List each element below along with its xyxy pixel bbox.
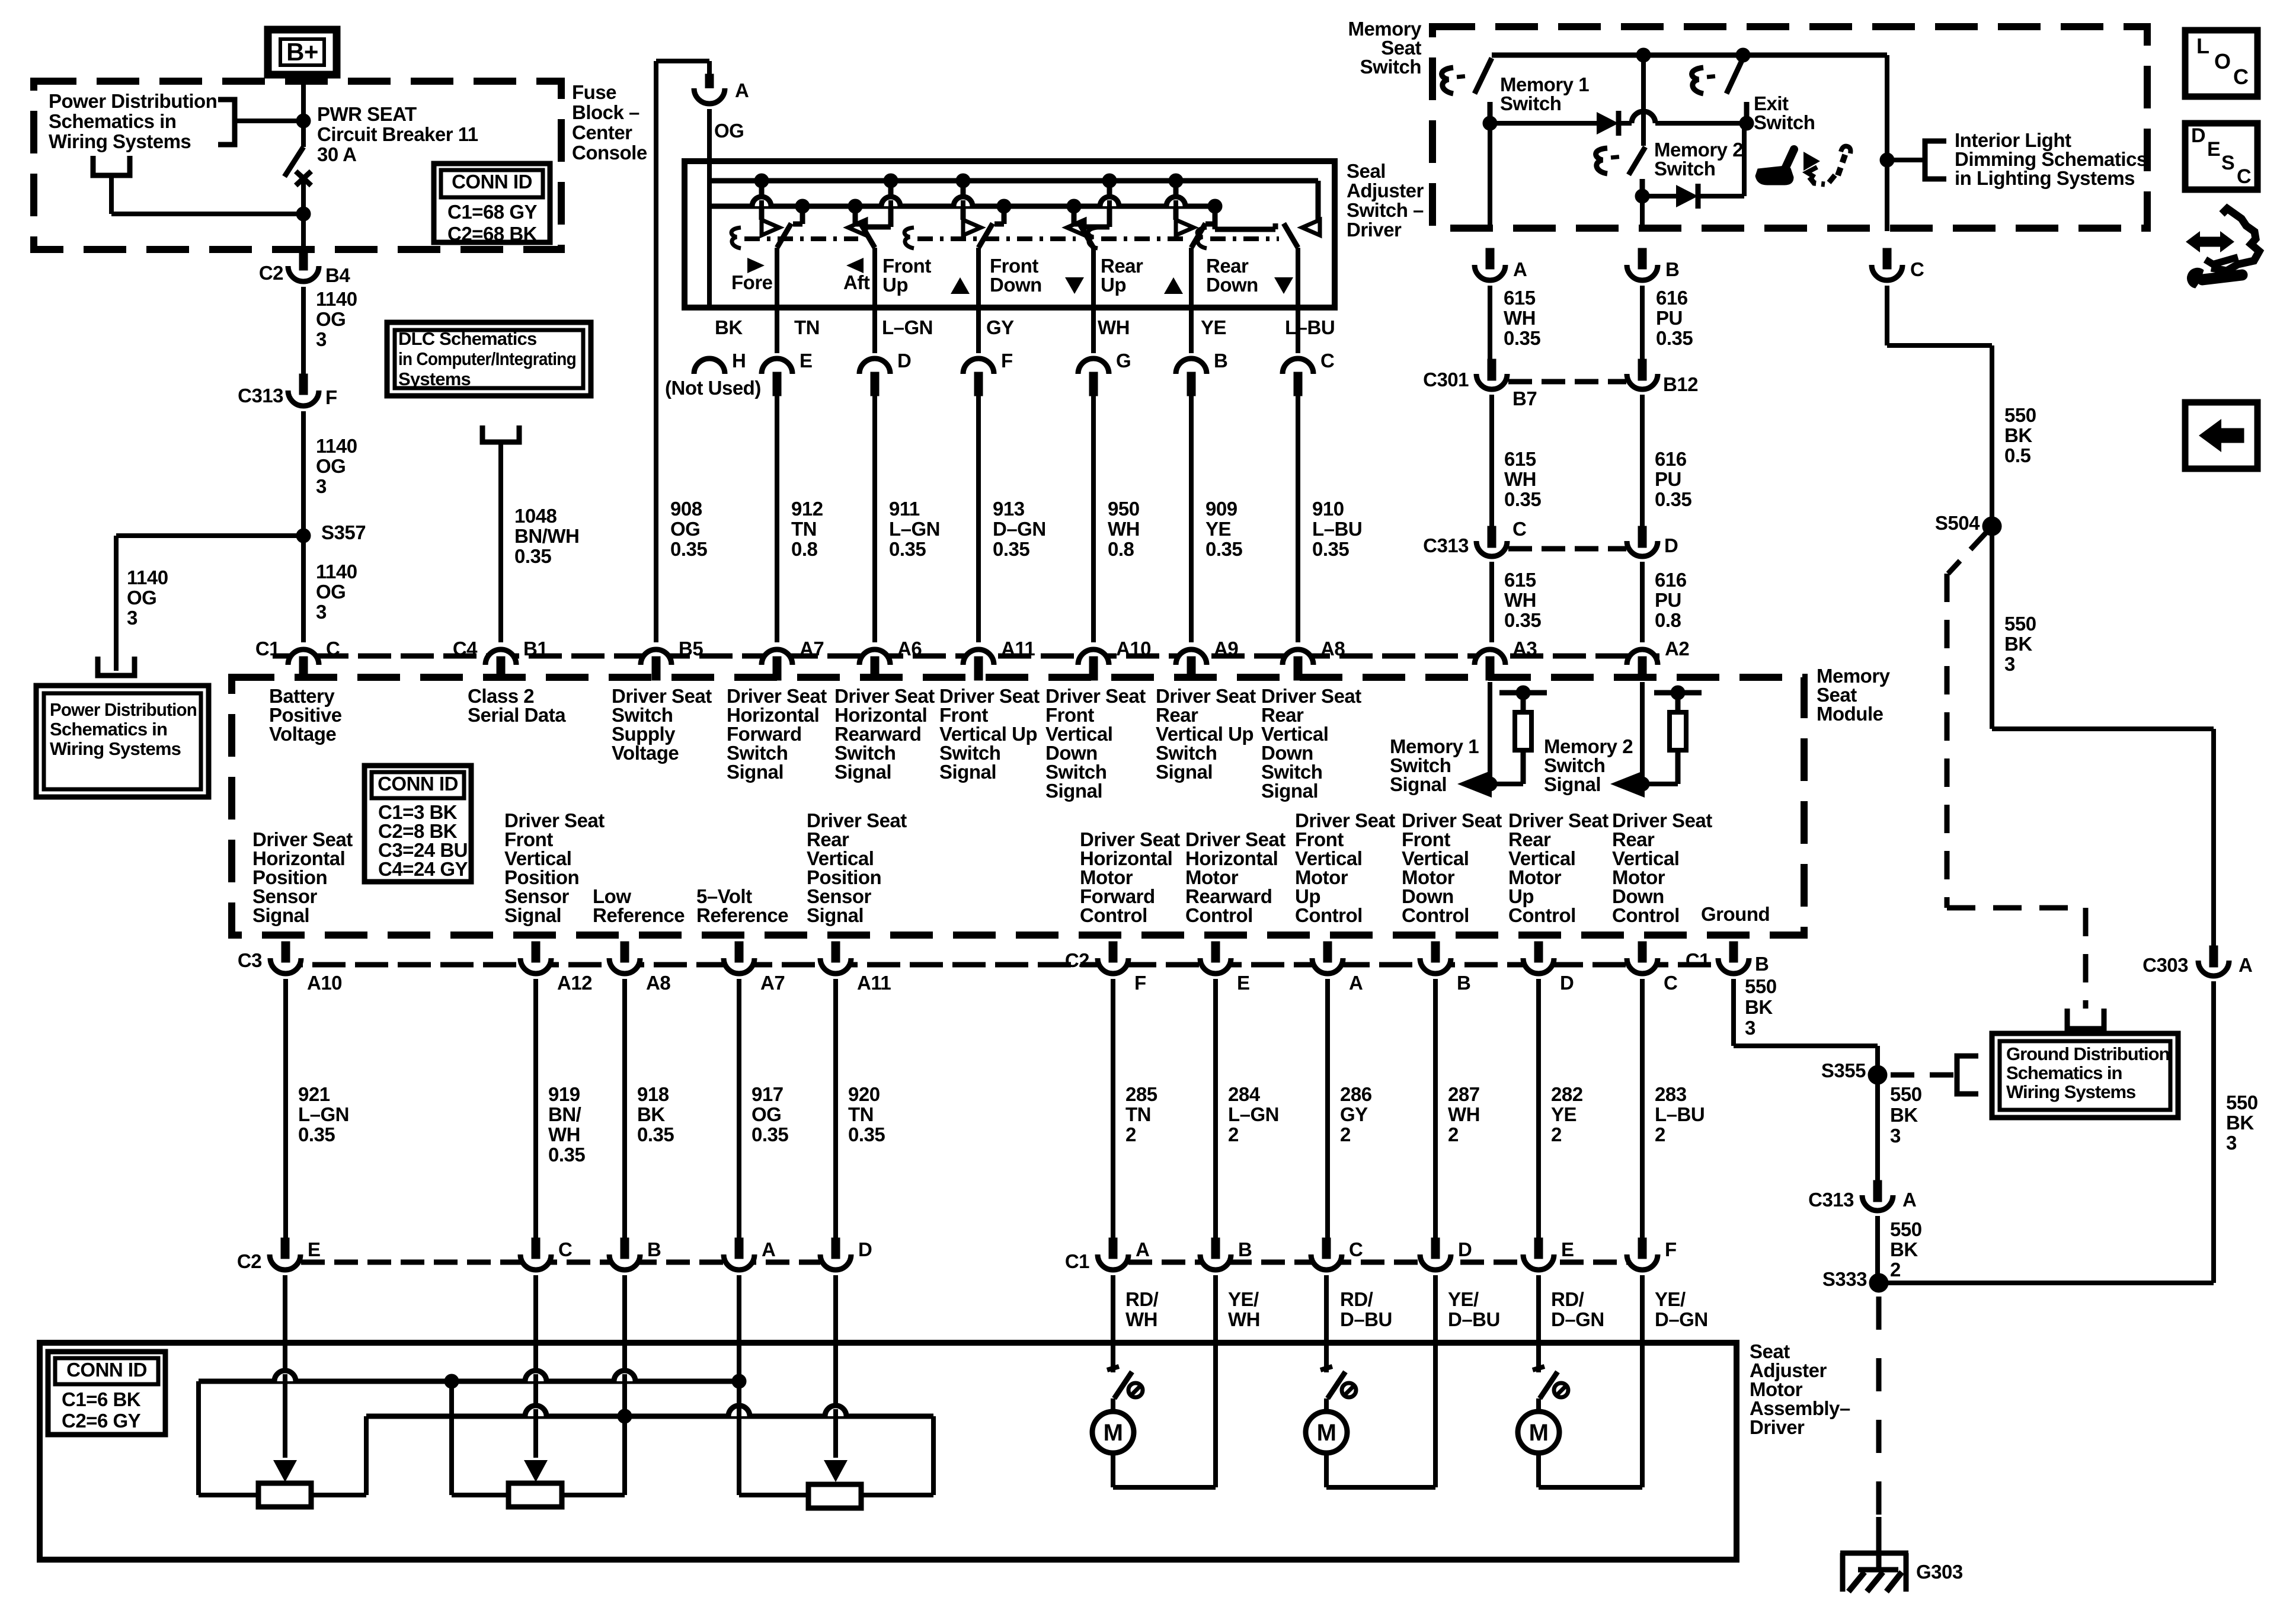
- connector D module bottom: [1523, 958, 1554, 974]
- wire motor horizontal bottom: [1111, 1453, 1115, 1487]
- svg-text:BK: BK: [715, 316, 743, 338]
- dashed wire to ground G303: [1876, 1297, 1882, 1517]
- wire sensor horizontal to wiper: [283, 1275, 287, 1458]
- svg-text:C: C: [1512, 518, 1526, 540]
- wire OG supply into switch box: [707, 109, 712, 308]
- horizontal position sensor potentiometer: [273, 1460, 297, 1482]
- circuit breaker X mark: [296, 171, 311, 185]
- direction glyph rear down: [1274, 277, 1293, 294]
- node top bus / exit switch: [1736, 48, 1750, 62]
- svg-text:C1=3 BKC2=8 BKC3=24 BUC4=24 GY: C1=3 BKC2=8 BKC3=24 BUC4=24 GY: [378, 801, 468, 880]
- svg-text:A10: A10: [307, 972, 342, 994]
- LOC icon box: [2185, 30, 2257, 97]
- wire memory1 to connector A: [1488, 123, 1492, 231]
- wire bracket to breaker node: [235, 119, 296, 123]
- off-page cup dashed ground branch: [2067, 1009, 2104, 1029]
- svg-text:CONN ID: CONN ID: [66, 1359, 147, 1381]
- wire branch down: [114, 536, 119, 671]
- connector A motor assembly: [724, 1254, 754, 1270]
- wire 287 WH: [1433, 979, 1438, 1240]
- svg-text:A9: A9: [1214, 638, 1238, 660]
- splice S357: [296, 529, 311, 543]
- svg-text:BatteryPositiveVoltage: BatteryPositiveVoltage: [269, 685, 342, 745]
- seat icon dashed target cushion: [1809, 177, 1825, 184]
- svg-text:A6: A6: [897, 638, 922, 660]
- splice S504: [1982, 517, 2001, 536]
- connector C motor assembly: [520, 1254, 551, 1270]
- wire 616 PU mid: [1640, 395, 1645, 526]
- connector A memory seat switch: [1475, 265, 1505, 280]
- front down switch: [1107, 181, 1112, 227]
- svg-text:E: E: [308, 1238, 321, 1260]
- riser pot1 to 5v bus: [196, 1381, 201, 1495]
- connector A8 module top: [1283, 649, 1313, 665]
- wire 950 WH: [1091, 391, 1096, 642]
- wire S357 branch left: [116, 533, 303, 538]
- connector C module top: [288, 649, 319, 665]
- connector C301/B12: [1638, 359, 1646, 379]
- connector A motor assembly: [1098, 1254, 1128, 1270]
- bus A right drop: [1316, 181, 1321, 220]
- svg-text:S357: S357: [321, 521, 366, 543]
- wire down to C303: [2211, 729, 2216, 946]
- wire motor front vertical bottom: [1324, 1453, 1329, 1487]
- svg-text:F: F: [325, 386, 337, 408]
- schematic route outline icon: [2211, 209, 2259, 271]
- actuator curl fore/aft: [731, 228, 741, 248]
- bracket to power distribution schematics: [218, 100, 235, 145]
- connector A11 module top: [963, 649, 994, 665]
- hop over front vertical sensor wire 2: [525, 1406, 546, 1416]
- wire motor rear vertical bottom: [1536, 1453, 1541, 1487]
- svg-text:M: M: [1529, 1420, 1549, 1446]
- connector A8 module bottom: [609, 958, 640, 974]
- module top connector dashed line: [273, 654, 1659, 659]
- svg-text:G: G: [1116, 350, 1131, 372]
- svg-text:A7: A7: [760, 972, 785, 994]
- svg-text:C313: C313: [1423, 534, 1469, 556]
- svg-text:L: L: [2196, 34, 2209, 58]
- thermal protector front vertical: [1320, 1366, 1332, 1370]
- diode memory 2: [1676, 185, 1698, 207]
- wire pot1 left: [199, 1493, 258, 1497]
- wire sensor rear vertical to wiper: [833, 1275, 838, 1458]
- node exit switch bottom: [1739, 116, 1754, 130]
- svg-text:C1=68 GYC2=68 BK: C1=68 GYC2=68 BK: [447, 201, 538, 245]
- connector C303/A: [2209, 946, 2218, 966]
- connector A10 module top: [1078, 649, 1109, 665]
- reference box ground distribution schematics: [1992, 1033, 2178, 1118]
- fore switch: [759, 181, 765, 220]
- svg-text:E: E: [1561, 1238, 1574, 1260]
- svg-text:C: C: [2233, 65, 2249, 89]
- wire 615 WH upper: [1488, 286, 1492, 359]
- svg-text:S: S: [2221, 152, 2234, 174]
- 5 volt reference bus: [199, 1379, 739, 1384]
- connector B module bottom: [1420, 958, 1451, 974]
- dashed connector line C313: [1508, 546, 1626, 552]
- memory seat module dashed box: [232, 677, 1804, 935]
- seat icon arrow: [1803, 152, 1820, 171]
- svg-text:D: D: [1560, 972, 1574, 994]
- connector A12 module bottom: [520, 958, 551, 974]
- wire motor horizontal feed: [1111, 1275, 1115, 1372]
- wire motor front vertical feed: [1324, 1275, 1329, 1372]
- svg-text:FrontDown: FrontDown: [990, 255, 1042, 296]
- wire front down switch to connector G: [1091, 248, 1096, 353]
- node interior light tap: [1880, 153, 1894, 167]
- svg-text:B7: B7: [1512, 388, 1537, 409]
- svg-text:RD/WH: RD/WH: [1125, 1288, 1159, 1330]
- wire motor front vertical return: [1433, 1275, 1438, 1487]
- svg-text:Ground: Ground: [1701, 903, 1770, 925]
- svg-text:615WH0.35: 615WH0.35: [1504, 287, 1540, 349]
- wire 550 BK 0.5 down: [1990, 345, 1994, 729]
- connector A9 module top: [1176, 649, 1207, 665]
- svg-text:C2: C2: [237, 1250, 261, 1272]
- riser pot2 to low ref: [622, 1416, 627, 1495]
- svg-text:C1: C1: [1686, 949, 1710, 971]
- seat adjuster switch box: [685, 161, 1335, 308]
- svg-text:C: C: [1349, 1238, 1363, 1260]
- battery feed B+ box: [268, 30, 337, 75]
- svg-text:B+: B+: [286, 38, 318, 66]
- hop over 5v wire: [728, 1406, 750, 1416]
- memory 1 switch: [1475, 58, 1492, 94]
- connector B motor assembly: [1200, 1254, 1231, 1270]
- svg-text:C: C: [1910, 258, 1924, 280]
- motor assembly connector row dashed line (right): [1128, 1260, 1627, 1265]
- svg-text:D: D: [2191, 124, 2205, 147]
- wire hop over memory2 branch: [1632, 111, 1655, 123]
- wire fuse jog: [656, 59, 709, 63]
- svg-text:OG: OG: [714, 120, 744, 142]
- svg-text:E: E: [1237, 972, 1250, 994]
- thermal protector horizontal: [1107, 1366, 1119, 1370]
- wire 919 BN/WH: [533, 979, 538, 1240]
- node mid pot to 5v bus: [445, 1374, 459, 1388]
- svg-text:C301: C301: [1423, 369, 1469, 391]
- wire hop to exit node: [1655, 121, 1747, 126]
- connector F module bottom: [1098, 958, 1128, 974]
- wrench: [2187, 268, 2204, 288]
- fuse block dashed box: [34, 81, 561, 249]
- wire B+ to breaker: [301, 75, 306, 147]
- wire 615 WH mid: [1489, 395, 1494, 526]
- svg-text:B4: B4: [325, 264, 350, 286]
- connector C313/A (ground): [1873, 1180, 1882, 1201]
- svg-text:D: D: [858, 1238, 872, 1260]
- svg-text:GY: GY: [986, 316, 1014, 338]
- svg-text:C4: C4: [453, 638, 478, 660]
- exit switch: [1726, 58, 1743, 94]
- connector C313/C: [1488, 526, 1496, 546]
- CONN ID box (fuse block): [434, 164, 550, 242]
- connector B seat adjuster switch: [1176, 359, 1207, 374]
- svg-text:G303: G303: [1916, 1561, 1963, 1583]
- svg-text:L–GN: L–GN: [882, 316, 933, 338]
- svg-text:Fore: Fore: [731, 271, 773, 293]
- wire 917 OG: [737, 979, 741, 1240]
- wire 913 D–GN: [976, 391, 981, 642]
- svg-text:C313: C313: [1808, 1189, 1854, 1211]
- svg-text:H: H: [732, 350, 746, 372]
- node top bus / memory2: [1636, 48, 1651, 62]
- hop over horizontal sensor wire: [274, 1371, 296, 1381]
- bracket ground distribution: [1957, 1056, 1978, 1094]
- hop over front vertical sensor wire: [525, 1371, 546, 1381]
- direction glyph front down: [1065, 277, 1084, 294]
- svg-text:A: A: [762, 1238, 775, 1260]
- svg-text:TN: TN: [794, 316, 820, 338]
- svg-text:YE: YE: [1201, 316, 1226, 338]
- switch supply bus A: [709, 178, 1318, 184]
- wire fore switch to connector E: [775, 248, 779, 353]
- svg-text:C303: C303: [2142, 954, 2188, 976]
- wire resistor to arrow: [1490, 782, 1523, 786]
- module bottom connector dashed line: [270, 962, 1748, 968]
- svg-text:919BN/WH0.35: 919BN/WH0.35: [548, 1083, 585, 1166]
- reference box DLC schematics: [387, 322, 591, 396]
- connector E motor assembly: [270, 1254, 300, 1270]
- CONN ID box (module): [364, 766, 471, 882]
- wire 1140 OG to module: [301, 411, 306, 642]
- linkage fore/aft: [744, 236, 858, 241]
- wire memory1 to diode: [1490, 121, 1597, 126]
- wire 921 L-GN: [283, 979, 288, 1240]
- wire 908 OG fuse to B5: [654, 61, 658, 642]
- connector C memory seat switch: [1872, 265, 1902, 280]
- connector A10 module bottom: [270, 958, 301, 974]
- svg-text:B5: B5: [679, 638, 703, 660]
- svg-text:F: F: [1134, 972, 1146, 994]
- thermal protector rear vertical: [1533, 1366, 1544, 1370]
- motor assembly connector row dashed line (left): [301, 1260, 820, 1265]
- front up switch: [961, 181, 966, 220]
- linkage front up/down: [917, 236, 1076, 241]
- svg-text:E: E: [800, 350, 813, 372]
- dashed to ground distribution bracket: [1891, 1073, 1953, 1078]
- reference box power distribution schematics: [36, 686, 209, 797]
- wire 909 YE: [1189, 391, 1194, 642]
- wire motor rear vertical feed: [1536, 1275, 1541, 1372]
- DESC icon box: [2185, 123, 2257, 190]
- svg-text:D: D: [1664, 534, 1678, 556]
- linkage rear down: [1210, 236, 1279, 241]
- wire 283 L-BU: [1640, 979, 1645, 1240]
- splice S333: [1869, 1273, 1888, 1292]
- low reference bus: [366, 1414, 933, 1419]
- wire to right edge: [1992, 726, 2214, 731]
- svg-text:(Not Used): (Not Used): [665, 377, 761, 399]
- svg-text:C: C: [1664, 972, 1677, 994]
- connector D motor assembly: [1420, 1254, 1451, 1270]
- svg-text:A: A: [1349, 972, 1363, 994]
- wire to S333: [1879, 1281, 2214, 1285]
- connector F motor assembly: [1627, 1254, 1658, 1270]
- svg-text:D: D: [897, 350, 911, 372]
- wire cup down: [109, 175, 114, 214]
- double arrow: [2186, 231, 2200, 252]
- svg-text:A: A: [2239, 954, 2252, 976]
- connector E seat adjuster switch: [762, 359, 792, 374]
- wire 282 YE: [1536, 979, 1541, 1240]
- seat icon solid cushion: [1755, 166, 1793, 185]
- rear vertical position sensor potentiometer: [824, 1460, 848, 1482]
- wire low reference into box: [622, 1275, 627, 1416]
- node breaker bottom tap: [296, 207, 311, 221]
- CONN ID box (motor assembly): [48, 1352, 165, 1435]
- connector A module bottom: [1312, 958, 1343, 974]
- svg-text:C: C: [558, 1238, 572, 1260]
- wire motor front vertical return: [1326, 1485, 1435, 1490]
- wire pot3 right: [861, 1493, 933, 1497]
- svg-text:B: B: [1238, 1238, 1252, 1260]
- actuator curl front up: [904, 228, 914, 248]
- wire 550 BK from C1/B: [1731, 979, 1736, 1046]
- fuse output connector A: [705, 74, 714, 95]
- motor M front vertical: [1324, 1398, 1329, 1411]
- wire 616 PU upper: [1640, 286, 1645, 359]
- wire 550 BK 3 down: [2211, 981, 2216, 1283]
- diode memory 1: [1597, 112, 1619, 135]
- motor M horizontal: [1111, 1398, 1115, 1411]
- wire aft switch to connector D: [872, 248, 877, 353]
- front vertical position sensor potentiometer: [524, 1460, 548, 1482]
- svg-text:A3: A3: [1512, 638, 1537, 660]
- circuit breaker CB11 blade: [284, 147, 303, 177]
- connector B module bottom: [1718, 958, 1749, 974]
- svg-text:F: F: [1001, 350, 1013, 372]
- connector H seat adjuster switch: [694, 359, 725, 374]
- bracket interior light: [1925, 141, 1946, 179]
- node breaker top tap: [296, 114, 311, 128]
- svg-text:C1: C1: [1065, 1250, 1089, 1272]
- wire ground jog: [1734, 1044, 1878, 1048]
- wire breaker to C2/B4: [301, 181, 306, 251]
- node 5v ref: [732, 1374, 746, 1388]
- node low ref: [618, 1409, 632, 1423]
- svg-text:Aft: Aft: [843, 271, 870, 293]
- svg-text:B: B: [1214, 350, 1227, 372]
- svg-text:C3: C3: [238, 949, 262, 971]
- rear up switch: [1173, 181, 1179, 220]
- svg-text:B12: B12: [1663, 373, 1698, 395]
- svg-text:M: M: [1104, 1420, 1123, 1446]
- svg-text:C2: C2: [1065, 949, 1089, 971]
- wire 920 TN: [833, 979, 838, 1240]
- svg-text:A12: A12: [557, 972, 592, 994]
- wire 918 BK: [622, 979, 627, 1240]
- wire motor horizontal return: [1213, 1275, 1218, 1487]
- svg-text:C1: C1: [255, 638, 280, 660]
- svg-text:A: A: [1136, 1238, 1149, 1260]
- ground symbol G303: [1840, 1551, 1908, 1556]
- connector C seat adjuster switch: [1283, 359, 1313, 374]
- wire diode2 up to exit node: [1742, 126, 1747, 196]
- seat icon dashed target backrest: [1838, 152, 1846, 175]
- svg-text:A7: A7: [800, 638, 824, 660]
- connector B motor assembly: [609, 1254, 640, 1270]
- wire A2 into module: [1640, 682, 1645, 784]
- wire 5v reference into box: [737, 1275, 741, 1381]
- wire pot1 right: [311, 1493, 366, 1497]
- wire 615 WH lower: [1489, 562, 1494, 642]
- connector A2 module top: [1627, 649, 1658, 665]
- off-page cup to power distribution: [93, 156, 130, 175]
- svg-text:A: A: [735, 79, 749, 101]
- riser pot2 to 5v bus: [449, 1381, 454, 1495]
- wire 912 TN: [775, 391, 779, 642]
- svg-text:S355: S355: [1821, 1060, 1866, 1081]
- direction glyph fore: [747, 258, 765, 273]
- svg-text:S504: S504: [1935, 512, 1980, 534]
- direction glyph rear up: [1164, 277, 1183, 294]
- connector B memory seat switch: [1627, 265, 1658, 280]
- svg-text:CONN ID: CONN ID: [378, 773, 458, 795]
- svg-text:C: C: [2237, 165, 2251, 188]
- riser pot1 to low ref: [364, 1416, 369, 1495]
- wire 550 BK 2: [1875, 1216, 1880, 1283]
- svg-text:O: O: [2214, 49, 2231, 73]
- wire rear up switch to connector B: [1189, 248, 1194, 353]
- svg-text:C: C: [326, 638, 340, 660]
- riser pot3 to low ref: [931, 1416, 936, 1495]
- splice S355: [1868, 1065, 1887, 1084]
- connector D seat adjuster switch: [859, 359, 890, 374]
- svg-text:C: C: [1320, 350, 1334, 372]
- memory seat switch dashed box: [1432, 27, 2147, 228]
- wire 1048 BN/WH: [498, 442, 503, 642]
- actuator curl rear down: [1197, 228, 1207, 248]
- svg-text:A10: A10: [1116, 638, 1151, 660]
- aft switch: [888, 181, 894, 227]
- actuator curl rear up: [1088, 228, 1098, 248]
- svg-text:D: D: [1458, 1238, 1472, 1260]
- wire diode to hop: [1619, 121, 1632, 126]
- svg-text:B1: B1: [523, 638, 548, 660]
- wire front up switch to connector F: [976, 248, 981, 353]
- connector D motor assembly: [820, 1254, 851, 1270]
- connector C module bottom: [1627, 958, 1658, 974]
- wire to interior light bracket: [1887, 158, 1925, 162]
- wire resistor2 to arrow: [1642, 782, 1678, 786]
- svg-text:B: B: [1665, 258, 1679, 280]
- wire 616 PU lower: [1640, 562, 1645, 642]
- wire memory switch top bus: [1492, 53, 1887, 58]
- svg-text:A: A: [1902, 1189, 1916, 1211]
- route icon spur: [2205, 257, 2238, 264]
- connector C301/B7: [1488, 359, 1496, 379]
- hop over low reference wire: [614, 1371, 635, 1381]
- svg-text:B: B: [1755, 953, 1769, 975]
- connector B1 module top: [485, 649, 516, 665]
- wire 911 L–GN: [872, 391, 877, 642]
- wire diode2 right: [1698, 194, 1744, 199]
- wire into connector A: [707, 61, 712, 76]
- wire 285 TN: [1111, 979, 1115, 1240]
- wire 1140 OG to C313: [301, 287, 306, 376]
- rear down switch: [1316, 220, 1321, 228]
- svg-text:F: F: [1665, 1238, 1677, 1260]
- wire motor horizontal return: [1113, 1485, 1216, 1490]
- connector B5 module top: [641, 649, 671, 665]
- connector C313/F: [288, 391, 319, 406]
- connector C motor assembly: [1311, 1254, 1342, 1270]
- rear down second contact from bus B end: [1213, 224, 1218, 229]
- svg-text:A2: A2: [1665, 638, 1689, 660]
- wire 284 L-GN: [1213, 979, 1218, 1240]
